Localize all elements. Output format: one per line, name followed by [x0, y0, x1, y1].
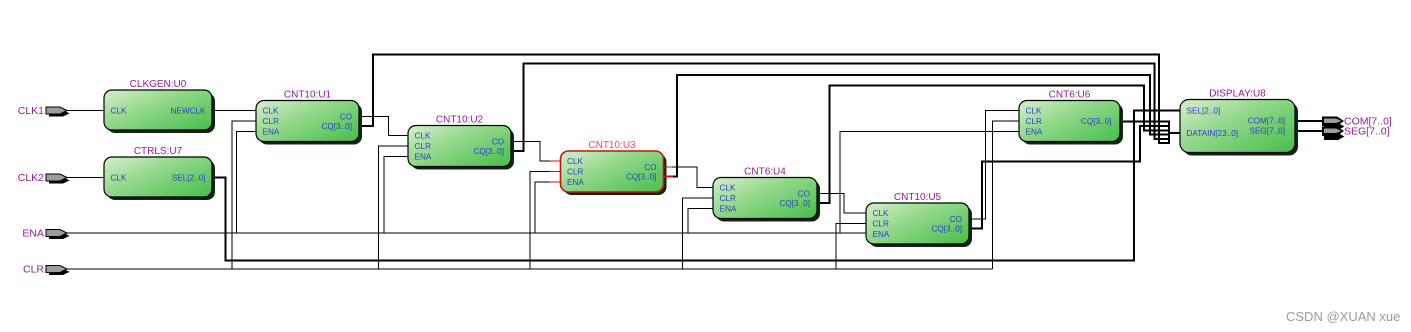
svg-text:ENA: ENA — [1026, 128, 1043, 137]
svg-text:CO: CO — [340, 113, 352, 122]
svg-text:CLR: CLR — [567, 168, 583, 177]
svg-text:CLR: CLR — [720, 194, 736, 203]
svg-text:CNT10:U2: CNT10:U2 — [436, 115, 484, 126]
svg-text:CTRLS:U7: CTRLS:U7 — [134, 146, 183, 157]
svg-text:CLK: CLK — [720, 184, 736, 193]
svg-text:CO: CO — [492, 138, 504, 147]
svg-text:CLK: CLK — [873, 209, 889, 218]
svg-text:CNT6:U6: CNT6:U6 — [1049, 90, 1091, 101]
svg-text:CQ[3..0]: CQ[3..0] — [322, 122, 353, 131]
svg-text:CO: CO — [644, 163, 656, 172]
svg-text:ENA: ENA — [415, 153, 432, 162]
svg-text:COM[7..0]: COM[7..0] — [1248, 117, 1285, 126]
svg-text:CLR: CLR — [415, 142, 431, 151]
svg-text:CLR: CLR — [1026, 117, 1042, 126]
svg-text:ENA: ENA — [873, 230, 890, 239]
svg-text:CSDN @XUAN xue: CSDN @XUAN xue — [1286, 309, 1400, 324]
svg-text:CQ[3..0]: CQ[3..0] — [474, 147, 505, 156]
svg-text:CQ[3..0]: CQ[3..0] — [1081, 117, 1112, 126]
svg-text:SEL[2..0]: SEL[2..0] — [1187, 107, 1221, 116]
svg-text:ENA: ENA — [263, 128, 280, 137]
svg-text:CLKGEN:U0: CLKGEN:U0 — [130, 79, 187, 90]
svg-text:CLK: CLK — [1026, 107, 1042, 116]
svg-text:ENA: ENA — [720, 205, 737, 214]
svg-text:CLK2: CLK2 — [18, 172, 44, 184]
svg-text:DATAIN[23..0]: DATAIN[23..0] — [1187, 129, 1239, 138]
svg-text:CQ[3..0]: CQ[3..0] — [780, 199, 811, 208]
svg-text:CNT10:U3: CNT10:U3 — [588, 140, 636, 151]
svg-text:CO: CO — [798, 190, 810, 199]
svg-text:ENA: ENA — [22, 228, 44, 240]
svg-text:CQ[3..0]: CQ[3..0] — [932, 225, 963, 234]
svg-text:ENA: ENA — [567, 178, 584, 187]
svg-text:CLK: CLK — [567, 157, 583, 166]
svg-text:DISPLAY:U8: DISPLAY:U8 — [1209, 89, 1266, 100]
svg-text:CNT6:U4: CNT6:U4 — [744, 167, 786, 178]
svg-text:CLR: CLR — [263, 117, 279, 126]
svg-text:CNT10:U5: CNT10:U5 — [894, 192, 942, 203]
svg-text:SEL[2..0]: SEL[2..0] — [172, 174, 206, 183]
svg-text:CLK: CLK — [263, 107, 279, 116]
svg-text:CLK1: CLK1 — [18, 105, 44, 117]
svg-text:CQ[3..0]: CQ[3..0] — [626, 173, 657, 182]
svg-text:CLK: CLK — [111, 174, 127, 183]
svg-text:CNT10:U1: CNT10:U1 — [284, 90, 332, 101]
svg-text:CLK: CLK — [111, 107, 127, 116]
svg-text:NEWCLK: NEWCLK — [170, 107, 206, 116]
svg-text:SEG[7..0]: SEG[7..0] — [1344, 126, 1390, 138]
svg-text:CLR: CLR — [873, 220, 889, 229]
svg-text:CLR: CLR — [23, 264, 44, 276]
svg-text:CLK: CLK — [415, 132, 431, 141]
svg-text:SEG[7..0]: SEG[7..0] — [1250, 126, 1286, 135]
svg-text:CO: CO — [950, 215, 962, 224]
